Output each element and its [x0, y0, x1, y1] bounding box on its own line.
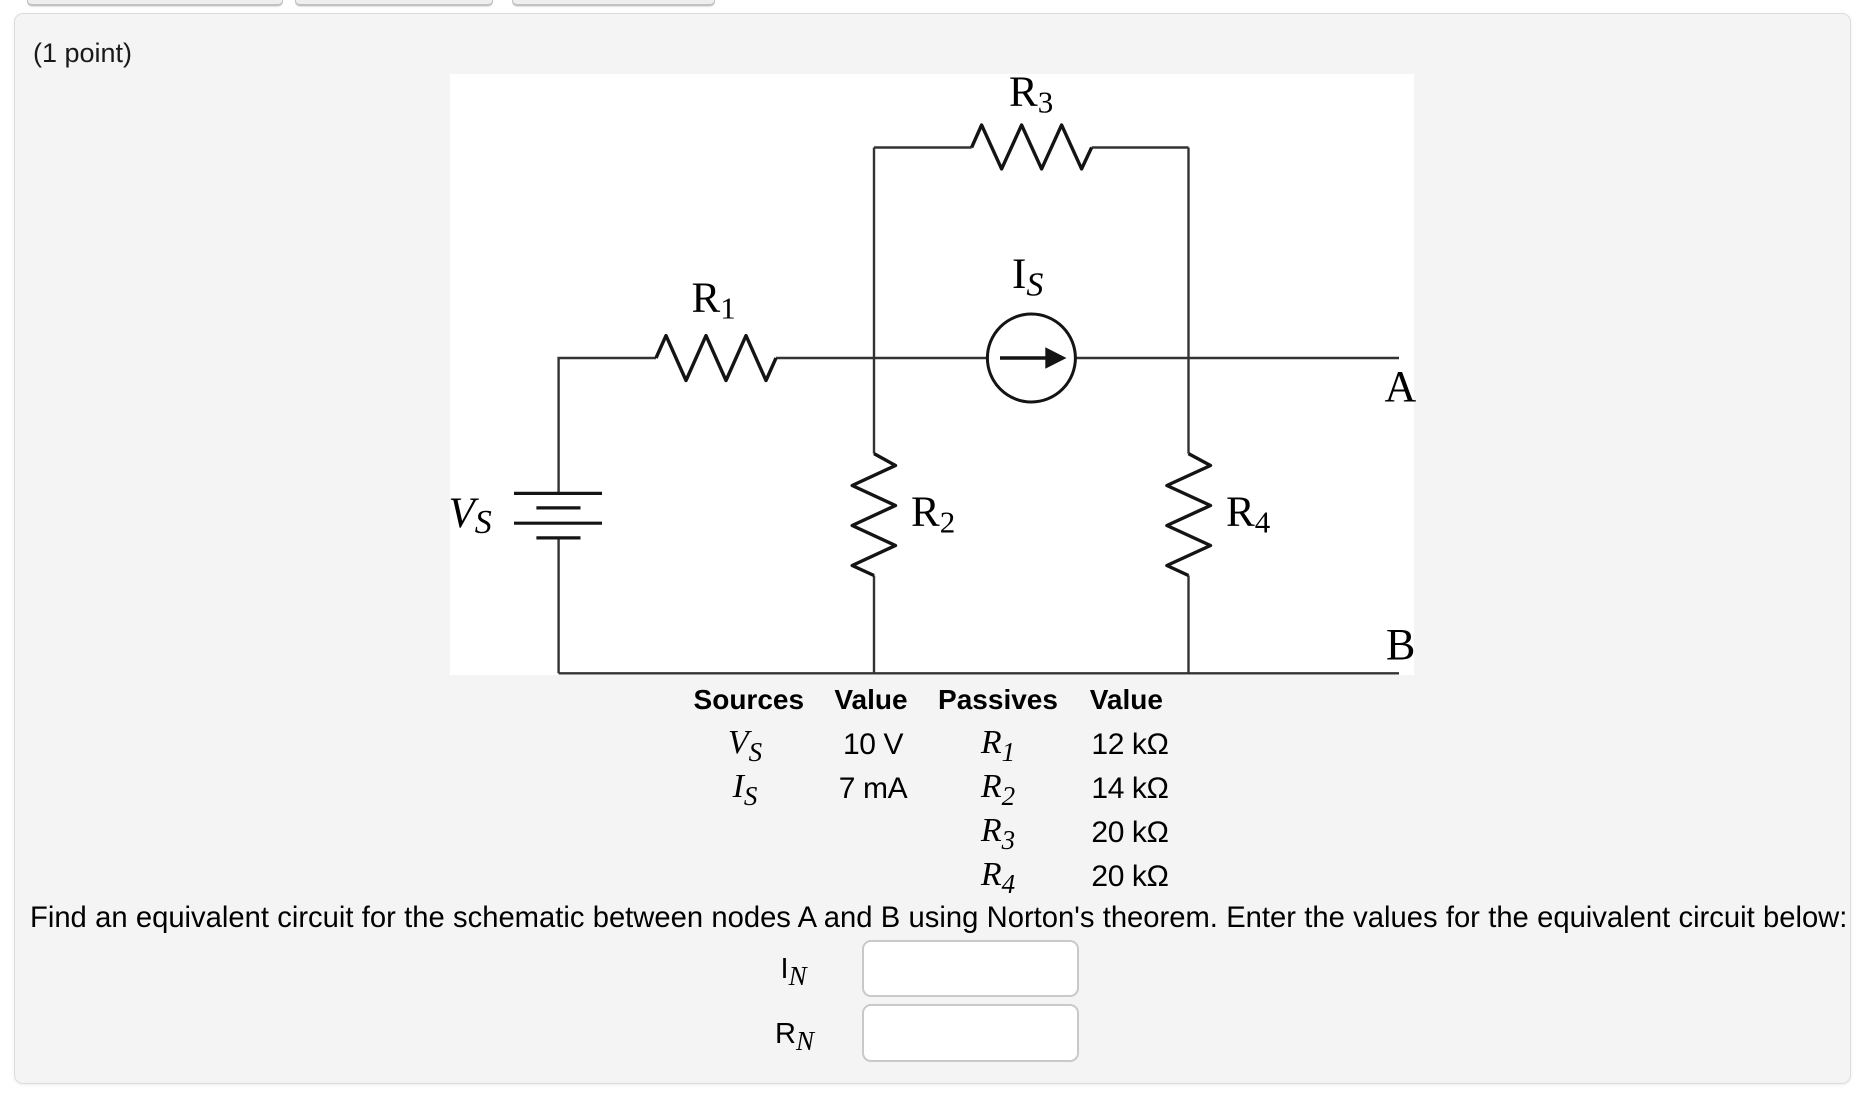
(1 point) label [33, 40, 132, 67]
find text [30, 901, 1847, 936]
label R1 [692, 277, 736, 320]
table row 3 [981, 814, 1015, 848]
resistor R1 [656, 336, 776, 381]
table row 1 [728, 726, 762, 760]
cut-off button 2 [295, 0, 493, 6]
label R2 [911, 491, 955, 534]
current source IS [987, 314, 1075, 402]
cut-off button 1 [27, 0, 283, 6]
wire: top branch left of R3 [874, 146, 972, 148]
wire: bottom horizontal to node B [559, 672, 1399, 674]
wire: top branch right of R3 [1092, 146, 1189, 148]
table row 2 [733, 770, 758, 804]
wire: left vertical top (Vs to node) [559, 358, 656, 493]
resistor R3 [972, 125, 1092, 169]
table row 4 [981, 858, 1015, 892]
answer box IN [862, 940, 1079, 997]
label IN [781, 955, 807, 984]
label IS [1012, 253, 1043, 296]
label R4 [1226, 491, 1270, 534]
cut-off button 3 [512, 0, 715, 6]
wire: main horizontal left of Is [776, 357, 987, 359]
resistor R4 [1167, 454, 1211, 576]
label R3 [1009, 71, 1053, 114]
node B [1386, 623, 1415, 667]
wire: R2 branch lower [873, 576, 875, 674]
wire: R4 branch upper [1187, 148, 1189, 454]
wire: R4 branch lower [1187, 576, 1189, 674]
battery VS [514, 493, 602, 538]
node A [1385, 365, 1417, 409]
circuit image [450, 74, 1414, 675]
table headers [694, 686, 805, 714]
resistor R2 [852, 454, 895, 576]
wire: main horizontal right of Is to node A [1076, 357, 1399, 359]
answer box RN [862, 1004, 1079, 1062]
label RN [775, 1020, 814, 1049]
label VS [449, 492, 492, 535]
wire: R2 branch upper [873, 148, 875, 454]
wire: left vertical bottom [557, 538, 559, 673]
